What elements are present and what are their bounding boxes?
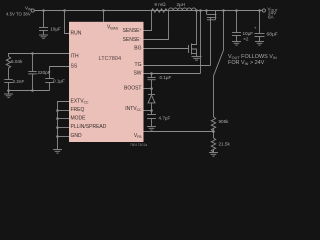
svg-text:PLLIN/SPREAD: PLLIN/SPREAD (71, 124, 107, 130)
svg-text:220pF: 220pF (38, 70, 51, 75)
svg-text:68µF: 68µF (267, 32, 278, 38)
svg-text:21.5k: 21.5k (219, 141, 231, 146)
svg-text:0.1µF: 0.1µF (53, 79, 65, 84)
svg-text:2µH: 2µH (176, 2, 185, 7)
svg-text:TG: TG (135, 62, 142, 68)
svg-text:0.1µF: 0.1µF (160, 75, 172, 80)
svg-text:FREQ: FREQ (71, 107, 85, 113)
svg-text:BG: BG (134, 46, 141, 52)
svg-text:×2: ×2 (243, 36, 249, 41)
svg-text:SS: SS (71, 64, 78, 70)
svg-text:4.5V TO 38V: 4.5V TO 38V (6, 11, 31, 16)
svg-text:MODE: MODE (71, 116, 87, 122)
svg-text:SW: SW (133, 70, 141, 76)
svg-text:6A: 6A (268, 14, 275, 19)
svg-text:RUN: RUN (71, 31, 82, 37)
svg-text:9 mΩ: 9 mΩ (154, 2, 166, 7)
svg-text:2.2nF: 2.2nF (13, 79, 25, 84)
svg-text:7804 TA01a: 7804 TA01a (130, 143, 147, 147)
svg-text:LTC7804: LTC7804 (99, 56, 122, 62)
svg-text:BOOST: BOOST (124, 86, 142, 92)
svg-text:GND: GND (71, 133, 83, 139)
svg-text:10µF: 10µF (243, 31, 254, 36)
svg-text:ITH: ITH (71, 54, 79, 60)
svg-text:6.04k: 6.04k (11, 59, 23, 64)
svg-text:4.7µF: 4.7µF (159, 116, 171, 121)
svg-text:10µF: 10µF (50, 27, 61, 32)
svg-text:905k: 905k (219, 119, 230, 124)
svg-text:SENSE+: SENSE+ (123, 28, 142, 34)
svg-text:SENSE−: SENSE− (123, 37, 142, 43)
